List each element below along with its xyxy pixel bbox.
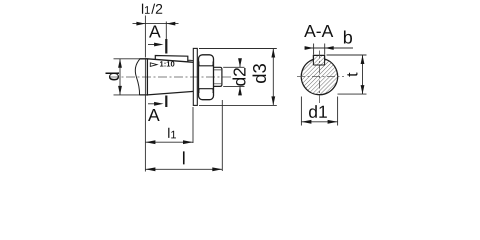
dimension d1 (301, 97, 337, 126)
circle centerline vertical (319, 51, 321, 104)
section line A upper stroke (165, 39, 167, 54)
shaft cylinder (140, 59, 148, 95)
threaded stub (214, 67, 222, 86)
section line A upper extension (165, 22, 167, 40)
svg-text:t: t (345, 72, 362, 77)
thread minor lines (214, 70, 221, 84)
d extension lines (114, 59, 140, 95)
svg-text:d1: d1 (308, 102, 327, 122)
section arrow upper (148, 44, 156, 46)
svg-text:b: b (343, 27, 353, 47)
svg-text:A-A: A-A (304, 21, 334, 41)
dimension l1/2 (144, 16, 146, 58)
section arrow lower (148, 103, 156, 105)
svg-text:1:10: 1:10 (159, 60, 174, 69)
section line A lower stroke (165, 96, 167, 108)
svg-text:A: A (148, 105, 160, 125)
circle centerline horizontal (297, 76, 344, 78)
svg-text:l1: l1 (167, 125, 176, 142)
dimension d2 (223, 67, 244, 86)
svg-text:d: d (103, 71, 123, 81)
dimension d3 (199, 49, 277, 106)
svg-text:d2: d2 (230, 67, 250, 86)
dimension l (221, 100, 223, 171)
centerline shaft axis (110, 76, 232, 78)
dimension l1 (144, 58, 146, 172)
dimension b (314, 44, 325, 55)
taper symbol 1:10 (150, 63, 157, 67)
svg-text:A: A (149, 21, 161, 41)
key (side view) (155, 56, 188, 62)
svg-text:l1/2: l1/2 (141, 1, 163, 17)
keyway bottom line (188, 59, 194, 61)
dimension d (119, 59, 121, 95)
hex nut (199, 55, 214, 100)
svg-text:l: l (182, 148, 186, 168)
shaft break line (135, 59, 140, 95)
section circle with key (hatched) (301, 55, 337, 94)
cone (taper section) (147, 58, 193, 95)
svg-text:d3: d3 (249, 63, 270, 84)
dimension t (327, 55, 367, 94)
washer (193, 48, 197, 105)
keyway seat line (313, 59, 324, 65)
